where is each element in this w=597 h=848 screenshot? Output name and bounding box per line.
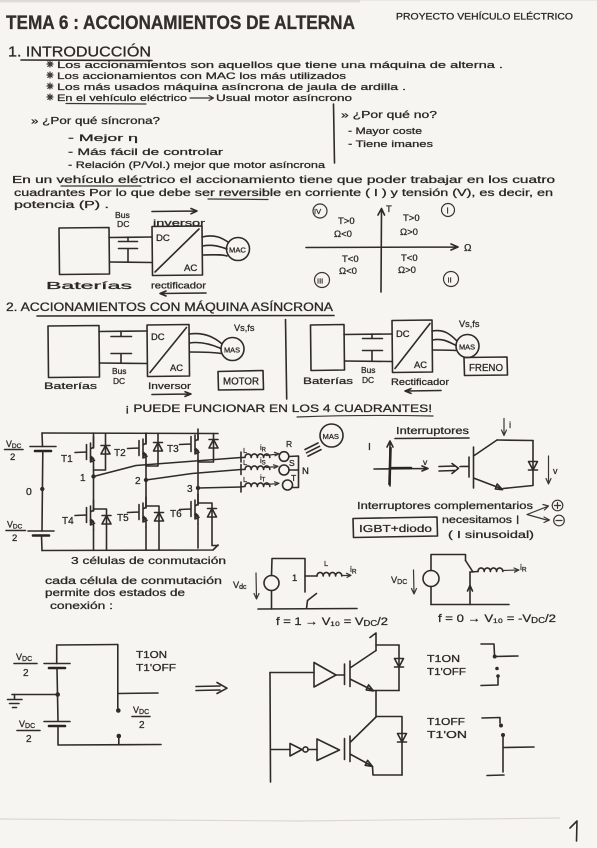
bottom wire [258,608,357,611]
svg-text:DC: DC [113,376,125,386]
svg-text:MOTOR: MOTOR [223,377,259,388]
MOTOR tag box [218,371,264,391]
leg 3 vertical wire [197,433,199,548]
equivalence marks [305,443,321,456]
capacitor bus DC [363,334,383,361]
svg-text:T1OFF: T1OFF [427,717,465,728]
svg-text:Ω<0: Ω<0 [339,266,357,277]
svg-text:AC: AC [184,263,197,274]
svg-text:T1: T1 [61,454,73,465]
svg-text:N: N [302,466,309,477]
svg-text:III: III [317,277,323,286]
leg 1 vertical wire [93,433,95,550]
svg-text:rectificador: rectificador [151,280,206,291]
V axis horizontal with thick stroke [374,466,428,471]
svg-text:Baterías: Baterías [44,381,97,392]
axis T vertical [378,209,385,293]
svg-text:Baterías: Baterías [46,280,132,292]
svg-text:2: 2 [139,720,145,731]
svg-text:Usual motor asíncrono: Usual motor asíncrono [216,93,352,104]
FRENO tag box [464,357,508,376]
svg-text:T1'ON: T1'ON [427,730,467,741]
IGBT T6 [180,494,200,524]
IGBT T1 [75,437,95,467]
svg-text:Ω<0: Ω<0 [334,229,352,240]
emitter wire lower [373,767,403,776]
I axis vertical with thick stroke [387,441,393,486]
bullet stars [47,61,53,100]
svg-text:cada célula de conmutación: cada célula de conmutación [45,576,222,587]
IGBT switch symbol [460,440,503,490]
svg-text:Interruptores: Interruptores [396,426,469,437]
load branch S: tick, L coil, current arrow iS [241,465,244,475]
output wire [118,692,158,695]
svg-text:- Tiene imanes: - Tiene imanes [348,139,433,150]
svg-text:T: T [291,473,296,483]
svg-text:3 células de conmutación: 3 células de conmutación [71,555,226,567]
open contact dot lower with stub [117,734,122,739]
load branch R: tick, L coil, current arrow iR [241,452,244,462]
svg-text:2: 2 [12,533,17,544]
left branch lower wire [57,669,58,722]
svg-text:T2: T2 [114,448,126,459]
capacitor bus DC [111,331,132,363]
inverter box DC/AC [152,226,203,276]
IGBT T2 [128,433,148,463]
svg-text:2: 2 [10,452,15,463]
diode [529,462,538,471]
switch blade open [307,594,317,609]
machine MAS circle [456,335,479,358]
top wire [272,559,306,593]
svg-text:2: 2 [23,668,29,679]
right branch wire [117,645,119,709]
voltage arrow v [546,456,551,484]
svg-text:Los accionamientos son aquello: Los accionamientos son aquellos que tien… [57,60,503,71]
svg-text:2: 2 [135,476,141,487]
diode T4 [102,516,111,525]
inverter box DC/AC [147,325,190,377]
circled plus [552,500,563,511]
battery Vdc/2 bottom [28,531,54,536]
top wire to diode [376,644,399,646]
svg-text:1: 1 [292,573,297,584]
wire buffer to gate [336,674,345,676]
emitter wire [374,690,400,692]
svg-text:IV: IV [314,207,321,216]
svg-text:Rectificador: Rectificador [391,377,450,388]
svg-text:Ω>0: Ω>0 [400,227,418,238]
svg-text:Inversor: Inversor [148,381,192,392]
DC top rail [42,432,218,435]
ground symbol [8,695,23,708]
svg-text:Interruptores complementarios: Interruptores complementarios [357,501,533,512]
svg-text:Los más usados máquina asíncro: Los más usados máquina asíncrona de jaul… [57,82,406,93]
svg-text:DC: DC [362,375,374,385]
svg-text:T<0: T<0 [401,253,418,264]
battery Vdc/2 top [30,447,56,452]
corner wire to lower diode [376,717,402,776]
IGBT T3 [180,429,200,459]
circled III bottom-left [315,273,330,288]
svg-text:T1ON: T1ON [136,650,167,661]
diode T2 [154,443,163,452]
current arrow iR [342,573,351,577]
IGBT T4 [75,500,95,530]
source bottom stub [430,587,432,605]
svg-text:- Relación (P/Vol.) mejor que: - Relación (P/Vol.) mejor que motor asín… [68,160,326,171]
svg-text:L: L [324,559,328,568]
left rail upper segment [41,433,44,447]
phase terminal S [279,465,289,475]
svg-text:2. ACCIONAMIENTOS CON MÁQUINA: 2. ACCIONAMIENTOS CON MÁQUINA ASÍNCRONA [6,299,334,314]
svg-text:AC: AC [414,359,427,370]
state symbol T1 on [481,644,518,657]
rectifier box DC/AC [392,320,433,373]
node 1 [91,474,95,478]
svg-text:T3: T3 [167,444,179,455]
divider between motor and freno figures [286,320,287,400]
svg-text:AC: AC [170,362,183,373]
svg-text:¡ PUEDE FUNCIONAR EN LOS 4 CUA: ¡ PUEDE FUNCIONAR EN LOS 4 CUADRANTES! [125,403,432,415]
node 2 [144,478,148,482]
three-phase wires [189,334,222,354]
diode branch T2: wire [146,433,158,466]
svg-text:conexión :: conexión : [50,601,113,612]
scan smudge top edge [0,0,360,3]
top rail [57,644,118,647]
svg-text:TEMA 6 : ACCIONAMIENTOS DE ALT: TEMA 6 : ACCIONAMIENTOS DE ALTERNA [6,13,355,34]
left rail middle segment [41,451,44,531]
svg-text:R: R [286,439,292,449]
svg-text:T1'OFF: T1'OFF [427,667,466,678]
wire to buffer [308,749,317,751]
svg-text:- Mejor η: - Mejor η [68,133,138,144]
svg-text:En un vehículo eléctrico el ac: En un vehículo eléctrico el accionamient… [12,175,556,186]
svg-text:3: 3 [187,484,193,495]
axis omega horizontal [306,244,458,250]
svg-text:PROYECTO VEHÍCULO ELÉCTRICO: PROYECTO VEHÍCULO ELÉCTRICO [396,12,573,22]
circled I top-right [442,204,455,217]
arrow inversor (power flow right) [152,209,197,214]
current arrow iR [503,568,519,572]
svg-text:2: 2 [26,734,32,745]
svg-text:I: I [447,207,449,216]
wire to upper driver [270,672,314,674]
ground wire [12,694,58,696]
left rail lower segment [41,536,44,551]
current arrow i [502,419,507,436]
vertical wire with up arrow [469,572,471,605]
diode upper [395,659,404,668]
svg-text:i: i [509,420,511,431]
collector top wire [497,439,533,442]
left branch upper wire [56,645,58,664]
three-phase wires to machine [202,236,228,256]
diode lower [398,734,407,743]
diode branch T5: wire [146,506,159,550]
svg-text:T5: T5 [117,513,129,524]
wire node3 to load T [198,487,241,488]
circled minus [554,515,565,526]
svg-text:DC: DC [156,233,170,244]
wire bottom [345,360,393,363]
Baterias box [59,228,110,275]
svg-text:T1ON: T1ON [427,654,460,665]
wire top [99,330,147,333]
svg-text:v: v [553,466,558,476]
svg-text:- Más fácil de controlar: - Más fácil de controlar [68,147,224,158]
svg-text:T: T [386,204,392,215]
svg-text:1: 1 [80,473,86,484]
svg-text:permite dos estados de: permite dos estados de [45,588,186,599]
arrow rectificador (power flow left) [160,291,206,296]
svg-text:Bus: Bus [112,366,126,376]
driver buffer lower [317,739,340,761]
svg-text:En el vehículo eléctrico: En el vehículo eléctrico [57,93,187,104]
wire top battery to inverter [109,236,152,239]
input bus vertical wire [269,673,272,783]
svg-text:Los accionamientos con MAC los: Los accionamientos con MAC los más utili… [57,71,346,82]
faint bottom scan shadow [0,818,560,821]
capacitor bus DC [119,237,138,262]
svg-text:S: S [289,458,295,468]
battery Vdc/2 bottom [44,722,70,727]
diode T6 [208,509,217,518]
phase terminal T [283,480,293,490]
diode branch T1: wire [94,433,106,470]
page number [570,821,577,841]
leg 2 vertical wire [145,433,147,550]
machine MAS circle [320,424,343,447]
svg-text:( I sinusoidal): ( I sinusoidal) [448,530,534,541]
svg-text:» ¿Por qué síncrona?: » ¿Por qué síncrona? [31,116,161,127]
svg-text:T<0: T<0 [342,254,359,265]
diode T3 [209,440,218,449]
svg-text:MAS: MAS [459,343,475,352]
svg-text:DC: DC [396,328,410,339]
driver buffer upper [314,663,336,688]
logic inverter (small triangle with bubble) [290,744,302,757]
svg-text:Vs,fs: Vs,fs [234,323,255,333]
diode branch T6: wire [198,503,218,546]
svg-text:MAC: MAC [229,246,246,255]
IGBT T1 (drive stage) [345,651,377,692]
svg-text:Ω>0: Ω>0 [398,265,416,276]
diode T1 [101,446,110,455]
svg-text:T>0: T>0 [338,216,355,227]
svg-text:» ¿Por qué no?: » ¿Por qué no? [341,110,438,121]
Baterias box [48,326,100,378]
node and inductor coil [470,571,478,574]
wire bottom [100,362,148,365]
collector lead top [370,633,376,651]
svg-text:MAS: MAS [224,346,240,355]
svg-text:potencia (P) .: potencia (P) . [14,200,109,211]
source circle [264,576,279,591]
circled IV top-left [313,204,327,218]
state symbol T1' on [482,718,500,724]
IGBT T1' (drive stage) [345,717,377,767]
Baterias box [311,325,345,371]
svg-text:necesitamos: necesitamos [442,515,512,526]
svg-text:II: II [448,276,452,285]
implies arrow [439,464,459,474]
svg-text:Bus: Bus [361,365,375,375]
battery Vdc/2 top [44,664,70,669]
phase terminal R [279,452,289,462]
junction node dot [55,692,60,697]
open contact dot upper [116,708,121,713]
svg-text:T>0: T>0 [403,213,420,224]
IGBT T5 [128,497,148,527]
circled II bottom-right [444,272,459,287]
svg-text:- Mayor coste: - Mayor coste [348,126,422,137]
source circle [423,571,439,587]
source bottom stub [271,591,273,610]
svg-text:FRENO: FRENO [469,363,503,374]
bottom rail [58,726,161,745]
svg-text:I: I [516,515,519,527]
svg-text:T4: T4 [62,516,74,527]
svg-text:IGBT+diodo: IGBT+diodo [359,523,432,535]
svg-text:T6: T6 [170,509,182,520]
svg-text:DC: DC [151,331,165,342]
wire top [344,333,392,336]
svg-text:T1'OFF: T1'OFF [136,663,176,674]
svg-text:Baterías: Baterías [303,376,353,387]
diode branch T4: wire [94,509,107,550]
svg-text:I: I [368,441,371,453]
diode branch upper: wire [398,645,400,691]
wire to lower driver [271,749,291,751]
DC bottom rail [42,545,218,551]
node 3 [196,486,200,490]
arrows to plus and minus [527,505,550,523]
load branch T: tick, L coil, current arrow iT [241,482,244,492]
neutral bus wire [289,456,299,488]
antiparallel diode branch [503,441,533,489]
machine MAC circle [227,238,250,261]
bottom wire [431,604,509,606]
column divider line [334,104,335,163]
switch blade open (top) [466,561,474,573]
svg-text:MAS: MAS [323,432,339,441]
machine MAS circle [221,338,244,361]
wire bottom battery to inverter [110,261,153,264]
wire node2 to load S [146,470,241,481]
implies double arrow [196,683,227,694]
wire node1 to load R [94,458,242,477]
top wire [431,555,466,571]
svg-text:Ω: Ω [464,243,472,254]
svg-text:DC: DC [117,219,129,229]
diode T5 [155,513,164,522]
diode branch T3: wire [198,434,214,463]
svg-text:cuadrantes Por lo que debe ser: cuadrantes Por lo que debe ser reversibl… [14,188,553,199]
svg-text:0: 0 [26,486,32,498]
IGBT+diodo tag box [353,517,438,538]
svg-text:Vs,fs: Vs,fs [459,319,480,329]
svg-text:1. INTRODUCCIÓN: 1. INTRODUCCIÓN [8,44,151,61]
middle connection wire [375,691,377,717]
three-phase wires [432,331,457,351]
